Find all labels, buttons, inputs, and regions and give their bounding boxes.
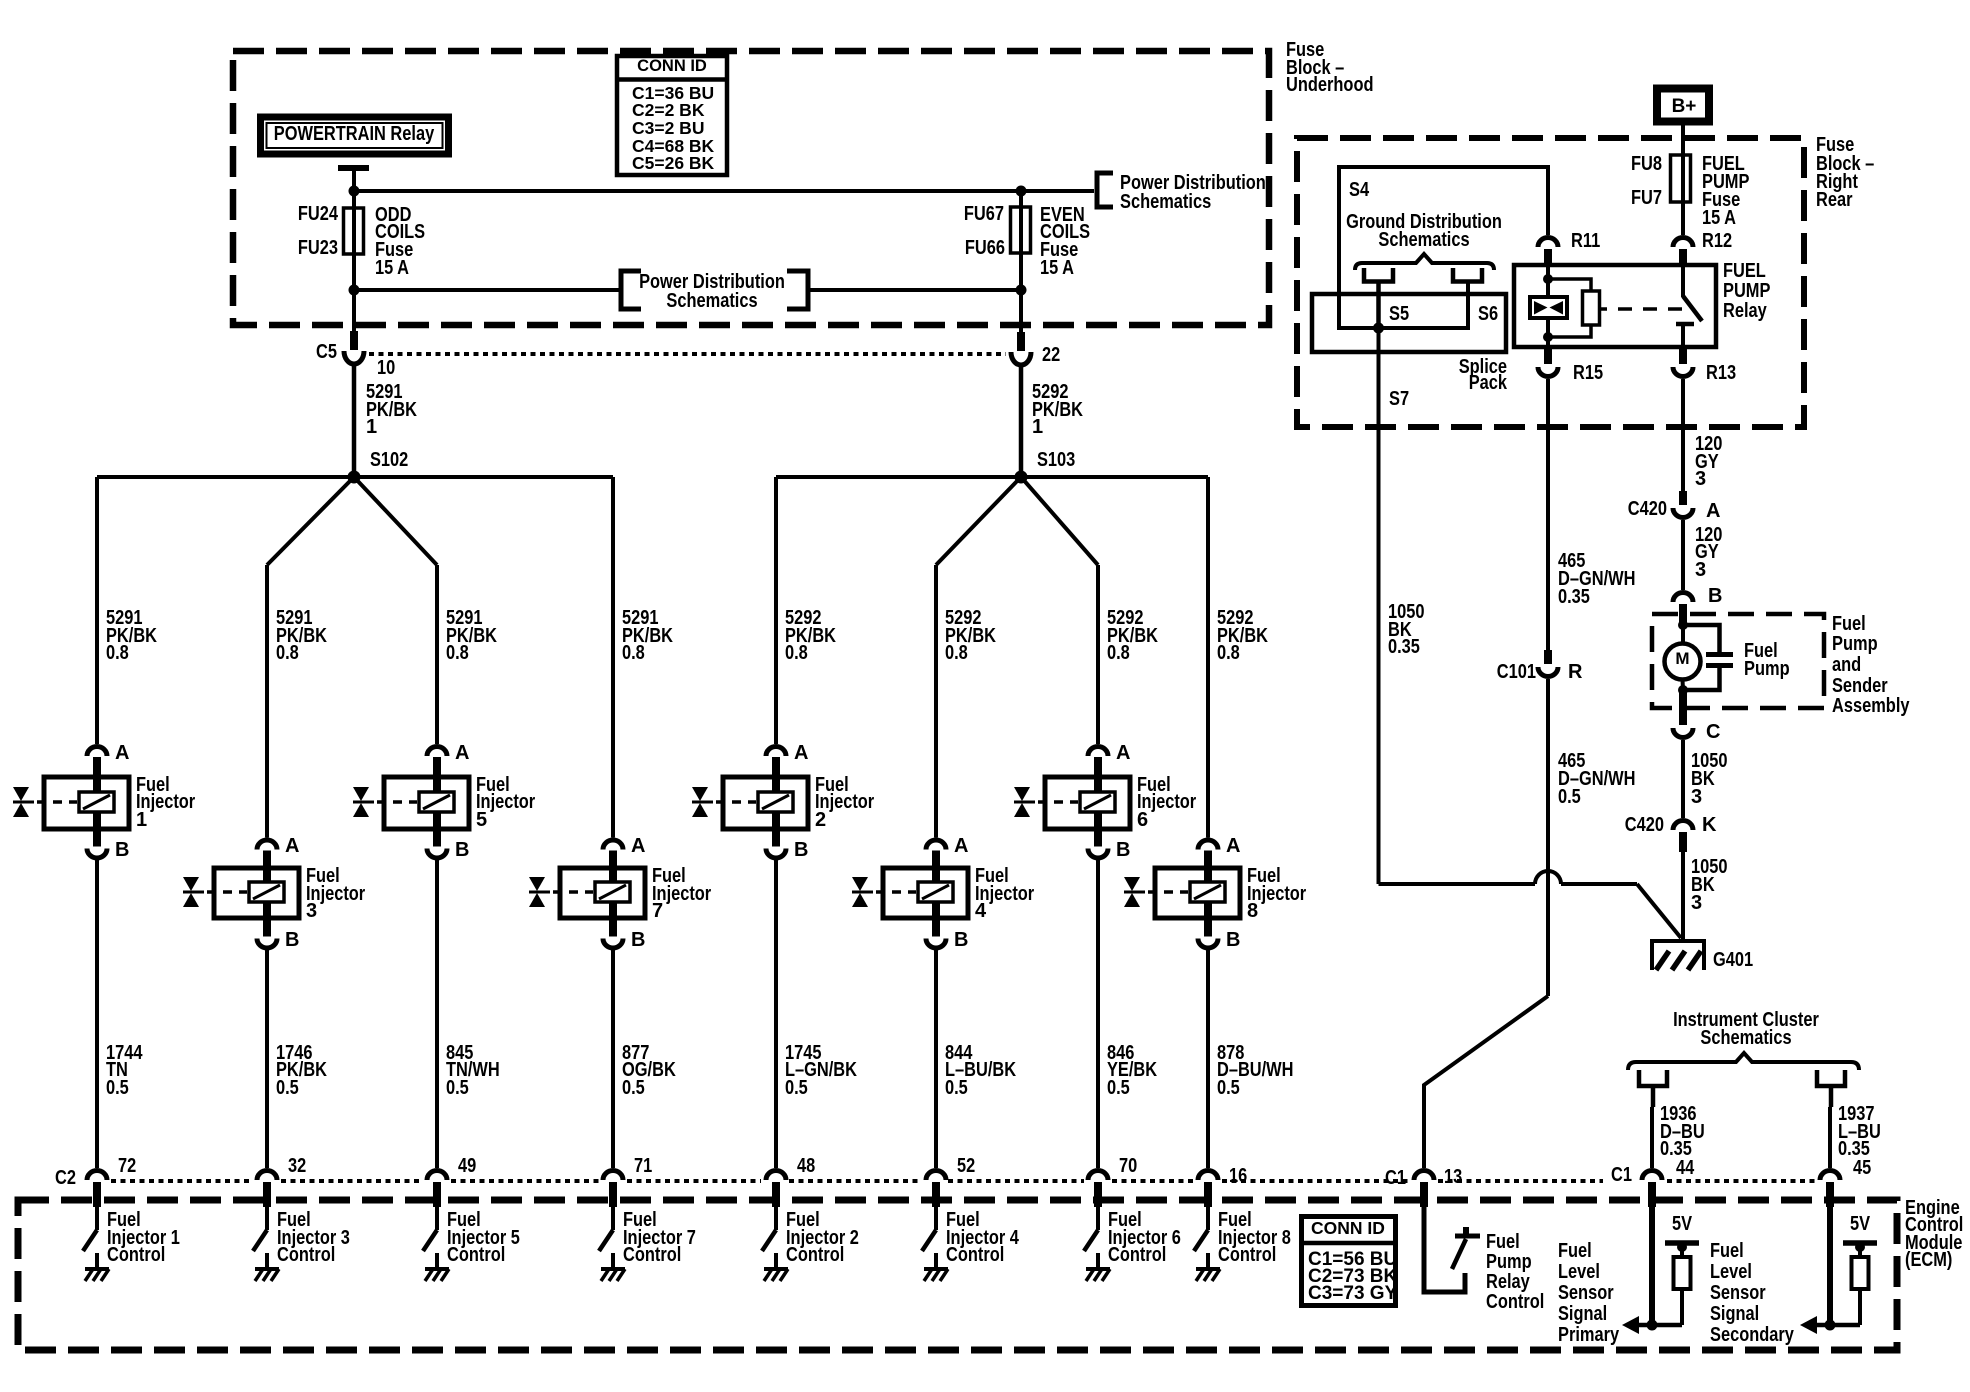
connector pin 45 stub <box>1826 1182 1834 1207</box>
wire: Power Distribution bracket to EVEN COILS fuse bottom <box>808 288 1021 292</box>
node: signal junction dot (Primary) <box>1647 1320 1658 1331</box>
wire: pin 22 to splice S103 <box>1019 364 1024 477</box>
ground symbol under injector 3 driver <box>255 1269 279 1281</box>
svg-text:Control: Control <box>946 1244 1004 1266</box>
svg-text:A: A <box>285 835 299 857</box>
connector R13 arc <box>1673 367 1693 377</box>
label pin B of injector 3 <box>285 929 299 951</box>
label FU67 <box>964 203 1004 225</box>
label Power Distribution Schematics (top) <box>1120 172 1266 213</box>
label FU23 <box>298 237 338 259</box>
connector C1 pin 13 arc <box>1414 1171 1434 1181</box>
label G401 <box>1713 949 1753 971</box>
svg-text:CONN ID: CONN ID <box>637 57 707 75</box>
dashed box: Fuse Block - Right Rear <box>1297 138 1804 427</box>
wire: injector 5 pin B down to ECM pin 49 <box>435 860 439 1169</box>
label pin A of injector 5 <box>455 742 469 764</box>
node: splice S103 dot <box>1015 471 1028 484</box>
svg-text:A: A <box>115 742 129 764</box>
svg-text:R15: R15 <box>1573 362 1603 384</box>
fuse FU24/FU23 ODD COILS 15 A <box>344 208 364 254</box>
switch: Fuel Pump Relay Control <box>1452 1227 1480 1269</box>
driver switch: Fuel Injector 5 Control <box>423 1207 437 1267</box>
svg-text:B: B <box>455 839 469 861</box>
label pin C <box>1706 721 1720 743</box>
connector C1 pin 44 arc <box>1642 1171 1662 1181</box>
svg-text:5V: 5V <box>1850 1213 1871 1235</box>
ground symbol under injector 1 driver <box>85 1269 109 1281</box>
wire label 1936 D-BU 0.35 <box>1660 1103 1705 1160</box>
svg-text:1: 1 <box>366 416 377 438</box>
wire label 1050 BK 3 (upper) <box>1691 750 1728 808</box>
label pin A of injector 6 <box>1116 742 1130 764</box>
label S6 <box>1478 303 1498 325</box>
wire label 5291 PK/BK 0.8 (injector 7 branch) <box>622 607 673 664</box>
label Power Distribution Schematics (center) <box>639 271 785 312</box>
label FU24 <box>298 203 339 225</box>
connector pin 72 stub <box>93 1182 101 1207</box>
svg-text:Signal: Signal <box>1710 1303 1759 1325</box>
wire: 5292 PK/BK branch down to fuel injector 8 <box>1206 477 1210 838</box>
wire label 5292 PK/BK 0.8 (injector 4 branch) <box>945 607 996 664</box>
svg-text:C3=73 GY: C3=73 GY <box>1308 1283 1398 1304</box>
connector R12 arc <box>1673 238 1693 248</box>
svg-text:1: 1 <box>1032 416 1043 438</box>
bracket: Power Distribution Schematics (center left) <box>621 271 641 309</box>
label R13 <box>1706 362 1736 384</box>
label pin A of injector 4 <box>954 835 968 857</box>
label pin 44 <box>1676 1157 1695 1179</box>
wire label 1050 BK 3 (lower) <box>1691 856 1728 914</box>
label R15 <box>1573 362 1603 384</box>
wire label 5291 PK/BK 0.8 (injector 3 branch) <box>276 607 327 664</box>
ground G401 <box>1650 941 1706 970</box>
svg-text:Control: Control <box>1108 1244 1166 1266</box>
label Fuel Injector 7 Control <box>623 1209 696 1266</box>
label pin K <box>1702 814 1717 836</box>
label Fuel Injector 4 Control <box>946 1209 1020 1266</box>
wire label 5292 PK/BK 0.8 (injector 2 branch) <box>785 607 836 664</box>
wire: C101 to ECM (465 D-GN/WH 0.5) <box>1546 679 1550 996</box>
svg-text:C2=2 BK: C2=2 BK <box>632 100 705 120</box>
svg-text:Control: Control <box>623 1244 681 1266</box>
dashed box: Fuel Pump and Sender Assembly <box>1652 614 1824 708</box>
driver switch: Fuel Injector 7 Control <box>599 1207 613 1267</box>
arrow: Fuel Level Sensor Signal Secondary <box>1800 1316 1817 1334</box>
svg-text:S4: S4 <box>1349 179 1370 201</box>
svg-text:Control: Control <box>277 1244 335 1266</box>
svg-text:0.5: 0.5 <box>945 1077 968 1099</box>
label Instrument Cluster Schematics <box>1673 1009 1819 1049</box>
svg-text:70: 70 <box>1119 1155 1137 1177</box>
wire: injector 2 pin B down to ECM pin 48 <box>774 860 778 1169</box>
svg-text:15 A: 15 A <box>375 257 409 279</box>
fuel injector 5 <box>353 747 469 859</box>
wire: S103 diagonal to injector 4 branch <box>936 477 1021 565</box>
svg-text:7: 7 <box>652 900 663 922</box>
label Fuel Pump (inside assembly) <box>1744 640 1790 680</box>
connector R15 arc <box>1538 367 1558 377</box>
svg-text:10: 10 <box>377 357 395 379</box>
node: splice S5 junction dot <box>1373 323 1384 334</box>
fuel injector 3 <box>183 840 299 948</box>
svg-text:A: A <box>954 835 968 857</box>
node: junction dot at EVEN COILS fuse top <box>1016 186 1027 197</box>
svg-text:S102: S102 <box>370 449 408 471</box>
label Fuel Injector 1 Control <box>107 1209 180 1266</box>
off-page fork to ground distribution (right, S6) <box>1453 268 1482 282</box>
svg-text:Control: Control <box>107 1244 165 1266</box>
wire: 5291 PK/BK branch down to fuel injector 5 <box>435 565 439 744</box>
wire: C5 to splice S102 <box>352 363 357 477</box>
wire: 5292 PK/BK branch down to fuel injector 4 <box>934 565 938 838</box>
svg-text:Schematics: Schematics <box>1700 1027 1791 1049</box>
FUEL PUMP Relay box <box>1514 265 1716 347</box>
svg-text:C2: C2 <box>55 1167 76 1189</box>
svg-text:Level: Level <box>1710 1261 1752 1283</box>
svg-text:Primary: Primary <box>1558 1324 1620 1346</box>
brace: Instrument Cluster Schematics <box>1628 1053 1859 1070</box>
svg-text:Fuel: Fuel <box>1558 1240 1592 1262</box>
pull-up resistor (Primary) <box>1674 1257 1691 1289</box>
svg-text:A: A <box>455 742 469 764</box>
svg-text:Level: Level <box>1558 1261 1600 1283</box>
svg-text:0.8: 0.8 <box>276 642 299 664</box>
connector pin 13 stub <box>1420 1182 1428 1207</box>
brace: Ground Distribution Schematics <box>1355 254 1494 270</box>
label FUEL PUMP Relay <box>1723 260 1770 322</box>
svg-text:Assembly: Assembly <box>1832 695 1910 717</box>
label C5 <box>316 341 337 363</box>
svg-text:0.8: 0.8 <box>622 642 645 664</box>
connector C1 pin 45 arc <box>1820 1171 1840 1181</box>
label C1 (at pin 44) <box>1611 1164 1632 1186</box>
label FU7 <box>1631 187 1662 209</box>
svg-text:Control: Control <box>1218 1244 1276 1266</box>
svg-text:Sensor: Sensor <box>1558 1282 1614 1304</box>
label Fuse Block - Right Rear <box>1816 134 1874 211</box>
fuel injector 1 <box>13 747 129 859</box>
wire: 5292 PK/BK branch down to fuel injector 6 <box>1096 565 1100 744</box>
wire: S102 diagonal to injector 3 branch <box>267 477 354 565</box>
splice S102 bus wire <box>97 475 613 479</box>
svg-text:C1: C1 <box>1385 1167 1406 1189</box>
svg-text:15 A: 15 A <box>1040 257 1074 279</box>
svg-text:C101: C101 <box>1497 661 1536 683</box>
svg-text:Schematics: Schematics <box>666 290 757 312</box>
off-page fork to instrument cluster (left) <box>1639 1070 1667 1107</box>
label Fuel Level Sensor Signal Primary <box>1558 1240 1620 1346</box>
label pin 10 <box>377 357 395 379</box>
svg-text:3: 3 <box>1695 559 1706 581</box>
ground symbol under injector 5 driver <box>425 1269 449 1281</box>
label pin 72 <box>118 1155 136 1177</box>
wire: S102 diagonal to injector 5 branch <box>354 477 437 565</box>
wire label 120 GY 3 (lower) <box>1695 524 1722 581</box>
wire label 845 TN/WH (to ECM pin 49) <box>446 1042 500 1099</box>
svg-text:PUMP: PUMP <box>1723 280 1770 302</box>
label S5 <box>1389 303 1409 325</box>
svg-text:FU8: FU8 <box>1631 153 1662 175</box>
splice S103 bus wire <box>776 475 1208 479</box>
label pin R of C101 <box>1568 661 1583 683</box>
driver switch: Fuel Injector 1 Control <box>83 1207 97 1267</box>
svg-text:3: 3 <box>1695 468 1706 490</box>
wire: 5291 PK/BK branch down to fuel injector 7 <box>611 477 615 838</box>
pull-up resistor (Secondary) <box>1852 1257 1869 1289</box>
svg-text:Pump: Pump <box>1744 658 1790 680</box>
driver switch: Fuel Injector 3 Control <box>253 1207 267 1267</box>
wire crossover hop over C101 wire <box>1535 871 1561 884</box>
svg-text:0.5: 0.5 <box>1107 1077 1130 1099</box>
wire label 5292 PK/BK 1 <box>1032 381 1083 438</box>
svg-text:16: 16 <box>1229 1165 1247 1187</box>
arrow: Fuel Level Sensor Signal Primary <box>1622 1316 1639 1334</box>
connector pin 52 stub <box>932 1182 940 1207</box>
svg-text:Secondary: Secondary <box>1710 1324 1795 1346</box>
connector pin 22 (stub) <box>1017 332 1025 351</box>
connector pin 70 stub <box>1094 1182 1102 1207</box>
connector pin 16 arc (ECM) <box>1198 1171 1218 1181</box>
wire: C420 A to pump pin B (120 GY) <box>1681 520 1685 590</box>
svg-text:C1: C1 <box>1611 1164 1632 1186</box>
connector R15 stub <box>1544 347 1552 364</box>
wire label 5291 PK/BK 0.8 (injector 1 branch) <box>106 607 157 664</box>
svg-text:Pump: Pump <box>1486 1251 1532 1273</box>
svg-text:0.5: 0.5 <box>785 1077 808 1099</box>
svg-text:Sensor: Sensor <box>1710 1282 1766 1304</box>
dotted connector line C5 <box>369 352 1006 356</box>
connector C420 pin A arc <box>1673 508 1693 518</box>
label pin B of injector 7 <box>631 929 645 951</box>
svg-text:FU24: FU24 <box>298 203 339 225</box>
svg-text:2: 2 <box>815 809 826 831</box>
svg-text:Relay: Relay <box>1723 300 1768 322</box>
svg-text:C420: C420 <box>1625 814 1664 836</box>
wire: S103 diagonal to injector 6 branch <box>1021 477 1098 565</box>
label S102 <box>370 449 408 471</box>
label Fuel Injector 2 <box>815 774 874 831</box>
dotted connector line C2/C1 row <box>111 1179 1815 1183</box>
svg-text:15 A: 15 A <box>1702 207 1736 229</box>
svg-text:B: B <box>1116 839 1130 861</box>
wire: POWERTRAIN relay output to fuse FU24/FU23 <box>352 168 356 331</box>
label pin A of injector 7 <box>631 835 645 857</box>
svg-text:B: B <box>1708 585 1722 607</box>
connector C420 pin A stub <box>1679 491 1687 505</box>
label Fuel Injector 3 <box>306 865 365 922</box>
svg-text:S7: S7 <box>1389 388 1409 410</box>
svg-text:A: A <box>631 835 645 857</box>
svg-text:Relay: Relay <box>1486 1271 1531 1293</box>
connector R13 stub <box>1679 347 1687 364</box>
svg-text:0.35: 0.35 <box>1558 586 1590 608</box>
connector C420 pin K stub <box>1679 832 1687 852</box>
connector R12 stub <box>1679 249 1687 266</box>
ground symbol under injector 8 driver <box>1196 1269 1220 1281</box>
svg-text:C3=2 BU: C3=2 BU <box>632 118 704 138</box>
svg-text:Control: Control <box>447 1244 505 1266</box>
svg-text:B: B <box>631 929 645 951</box>
connector pump pin C stub <box>1679 690 1687 725</box>
label Fuse Block - Underhood <box>1286 39 1374 96</box>
wire label 1937 L-BU 0.35 <box>1838 1103 1881 1160</box>
svg-text:Sender: Sender <box>1832 675 1888 697</box>
label pin 16 <box>1229 1165 1247 1187</box>
ground symbol under injector 2 driver <box>764 1269 788 1281</box>
svg-text:0.5: 0.5 <box>622 1077 645 1099</box>
driver switch: Fuel Injector 6 Control <box>1084 1207 1098 1267</box>
svg-text:R13: R13 <box>1706 362 1736 384</box>
connector pin 71 stub <box>609 1182 617 1207</box>
wire: R13 to C420 pin A (120 GY) <box>1681 379 1685 491</box>
label Fuel Injector 1 <box>136 774 195 831</box>
connector pin 52 arc (ECM) <box>926 1171 946 1181</box>
label pin B <box>1708 585 1722 607</box>
connector C5 arc <box>344 351 364 364</box>
svg-text:3: 3 <box>306 900 317 922</box>
svg-text:(ECM): (ECM) <box>1905 1249 1952 1271</box>
label pin A of injector 2 <box>794 742 808 764</box>
ground symbol under injector 7 driver <box>601 1269 625 1281</box>
label S103 <box>1037 449 1075 471</box>
connector pin 22 arc <box>1011 352 1031 365</box>
svg-text:and: and <box>1832 654 1861 676</box>
connector C5 pin 10 (stub) <box>350 331 358 350</box>
label C1 (at pin 13) <box>1385 1167 1406 1189</box>
wire: S7 diagonal to G401 <box>1637 884 1681 938</box>
wire label 5292 PK/BK 0.8 (injector 8 branch) <box>1217 607 1268 664</box>
connector pin 49 stub <box>433 1182 441 1207</box>
CONN ID table (underhood) <box>615 56 729 175</box>
node: junction dot at relay output bus (left) <box>349 186 360 197</box>
svg-text:32: 32 <box>288 1155 306 1177</box>
fuel injector 2 <box>692 747 808 859</box>
wire: 5292 PK/BK branch down to fuel injector 2 <box>774 477 778 744</box>
svg-text:49: 49 <box>458 1155 476 1177</box>
connector pin 49 arc (ECM) <box>427 1171 447 1181</box>
relay coil (solenoid) bowtie <box>1530 266 1567 347</box>
driver switch: Fuel Injector 2 Control <box>762 1207 776 1267</box>
svg-text:Pack: Pack <box>1469 372 1508 394</box>
svg-text:B: B <box>115 839 129 861</box>
svg-text:0.8: 0.8 <box>446 642 469 664</box>
off-page fork to ground distribution (left, S5) <box>1364 268 1393 328</box>
connector pin 16 stub <box>1204 1182 1212 1207</box>
dashed box: Fuse Block - Underhood <box>233 51 1269 325</box>
svg-text:8: 8 <box>1247 900 1258 922</box>
svg-text:0.5: 0.5 <box>276 1077 299 1099</box>
bracket: Power Distribution Schematics (center right) <box>787 271 808 309</box>
wire: injector 8 pin B down to ECM pin 16 <box>1206 950 1210 1169</box>
svg-text:FU7: FU7 <box>1631 187 1662 209</box>
svg-text:Pump: Pump <box>1832 633 1878 655</box>
label Fuel Injector 4 <box>975 865 1034 922</box>
label Fuel Injector 3 Control <box>277 1209 350 1266</box>
wire: ECM pin 44 to fuel level sensor signal node <box>1649 1207 1655 1325</box>
svg-text:Schematics: Schematics <box>1378 229 1469 251</box>
node: relay coil bottom dot <box>1543 332 1553 342</box>
svg-text:0.8: 0.8 <box>1107 642 1130 664</box>
svg-text:22: 22 <box>1042 344 1060 366</box>
svg-text:0.5: 0.5 <box>1558 786 1581 808</box>
svg-text:M: M <box>1675 649 1689 668</box>
POWERTRAIN Relay box <box>261 117 449 154</box>
svg-text:5V: 5V <box>1672 1213 1693 1235</box>
connector R11 arc <box>1538 238 1558 248</box>
svg-text:0.35: 0.35 <box>1388 636 1420 658</box>
wire: 1936 D-BU to ECM pin 44 <box>1650 1107 1654 1168</box>
connector pin 44 stub <box>1648 1182 1656 1207</box>
node: junction dot below ODD COILS fuse <box>349 285 360 296</box>
wire: S7 run after hop <box>1561 882 1637 886</box>
label pin 49 <box>458 1155 476 1177</box>
connector C101 stub <box>1544 650 1552 664</box>
svg-text:5: 5 <box>476 809 487 831</box>
fuel injector 8 <box>1124 840 1240 948</box>
svg-text:6: 6 <box>1137 809 1148 831</box>
wire: 5291 PK/BK branch down to fuel injector 1 <box>95 477 99 744</box>
wire label 465 D-GN/WH 0.35 <box>1558 550 1636 608</box>
label C420 (pin K) <box>1625 814 1664 836</box>
connector pin 32 stub <box>263 1182 271 1207</box>
wire: injector 7 pin B down to ECM pin 71 <box>611 950 615 1169</box>
svg-text:Control: Control <box>1486 1291 1544 1313</box>
label S7 <box>1389 388 1409 410</box>
label pin A <box>1706 500 1720 522</box>
fuel injector 7 <box>529 840 645 948</box>
label pin B of injector 5 <box>455 839 469 861</box>
svg-text:0.8: 0.8 <box>106 642 129 664</box>
svg-text:0.8: 0.8 <box>1217 642 1240 664</box>
B+ battery feed box <box>1657 89 1709 122</box>
svg-text:Fuel: Fuel <box>1710 1240 1744 1262</box>
label pin 22 <box>1042 344 1060 366</box>
wire: resistor to signal node (Secondary) <box>1817 1289 1860 1325</box>
wire label 844 L&#8211;BU/BK (to ECM pin 52) <box>945 1042 1017 1099</box>
svg-text:Control: Control <box>786 1244 844 1266</box>
svg-text:48: 48 <box>797 1155 815 1177</box>
wire: S7 horizontal run to ground <box>1379 882 1536 886</box>
node: splice S102 dot <box>348 471 361 484</box>
node: junction dot above fuel pump motor <box>1678 620 1688 630</box>
svg-text:1: 1 <box>136 809 147 831</box>
label pin A of injector 1 <box>115 742 129 764</box>
svg-text:G401: G401 <box>1713 949 1753 971</box>
label pin B of injector 1 <box>115 839 129 861</box>
connector C101 arc (R) <box>1538 667 1558 677</box>
svg-text:FU66: FU66 <box>965 237 1005 259</box>
label Fuel Injector 6 Control <box>1108 1209 1181 1266</box>
wire: injector 1 pin B down to ECM pin 72 <box>95 860 99 1169</box>
wire label 1050 BK 0.35 <box>1388 601 1425 658</box>
connector pin 72 arc (ECM) <box>87 1171 107 1181</box>
5V supply terminal (Primary) <box>1665 1213 1699 1257</box>
label Fuel Injector 5 <box>476 774 535 831</box>
label pin 48 <box>797 1155 815 1177</box>
label pin B of injector 2 <box>794 839 808 861</box>
svg-text:FUEL: FUEL <box>1723 260 1766 282</box>
svg-text:B: B <box>285 929 299 951</box>
wire label 1746 PK/BK (to ECM pin 32) <box>276 1042 327 1099</box>
label C2 (ECM connector) <box>55 1167 76 1189</box>
svg-text:3: 3 <box>1691 786 1702 808</box>
label EVEN COILS Fuse 15 A <box>1040 204 1090 279</box>
label Fuel Pump Relay Control <box>1486 1231 1544 1313</box>
svg-text:3: 3 <box>1691 892 1702 914</box>
wire: 1937 L-BU to ECM pin 45 <box>1828 1107 1832 1168</box>
relay suppression resistor <box>1548 279 1600 337</box>
